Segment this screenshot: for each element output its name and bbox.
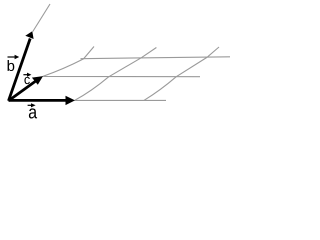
label: letter c (24, 77, 29, 84)
vector a (thick arrow from origin, horizontal) (9, 99, 68, 102)
label: small arrow over letter c (23, 74, 29, 76)
wire: slanted lattice grid line S1 (from tip of vector c) (43, 47, 94, 77)
wire: thin gray extension line beyond vector b arrowhead (33, 4, 50, 32)
wire: slanted lattice grid line S3 (144, 47, 219, 100)
label: letter b (8, 60, 15, 71)
wire: horizontal lattice grid line R0 (through tip of vector a) (75, 99, 167, 101)
vector b (thick arrow from origin, steep) (9, 39, 31, 101)
label: letter a (29, 108, 37, 118)
vector c (thick arrow from origin, diagonal) (9, 80, 37, 101)
wire: horizontal lattice grid line R2 (top row) (81, 57, 231, 59)
label: small arrow over letter a (28, 104, 34, 106)
wire: slanted lattice grid line S2 (from tip of vector a) (75, 48, 157, 101)
label: small arrow over letter b (8, 56, 17, 58)
wire: horizontal lattice grid line R1 (through tip of vector c) (43, 76, 201, 78)
